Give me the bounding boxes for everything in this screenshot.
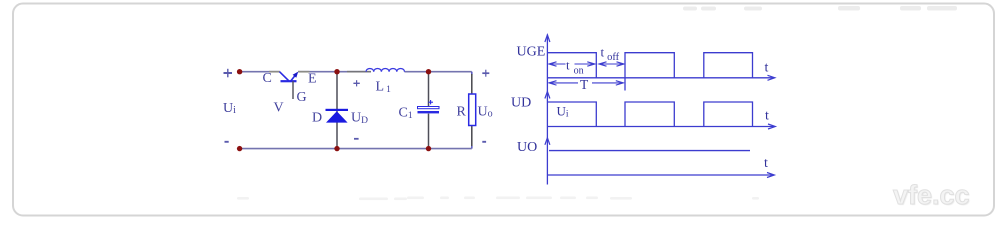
UO time axis xyxy=(547,174,773,176)
node dot input bottom xyxy=(237,146,242,151)
inductor L1 winding xyxy=(366,68,405,71)
wire gray stub right of transistor xyxy=(298,71,310,73)
transistor V (GTR) collector diagonal xyxy=(280,72,289,81)
UO time axis arrowhead xyxy=(767,173,774,178)
UGE time axis xyxy=(547,77,774,79)
svg-text:t: t xyxy=(764,156,768,171)
svg-text:T: T xyxy=(580,77,589,92)
minus mark output - xyxy=(482,141,486,143)
T dimension left segment with arrowhead xyxy=(549,81,578,85)
UGE time axis arrowhead xyxy=(768,75,775,80)
resistor R body xyxy=(469,94,476,126)
node dot diode bottom xyxy=(334,146,339,151)
minus mark diode - xyxy=(354,138,359,140)
svg-text:C: C xyxy=(263,71,272,86)
faint ghost marks bottom band xyxy=(237,197,759,201)
transistor V base bar xyxy=(281,80,297,82)
svg-text:t: t xyxy=(765,109,769,124)
transistor V emitter line xyxy=(291,73,297,81)
plus mark diode + xyxy=(353,80,359,86)
t_off dimension arrow (double headed) xyxy=(599,62,624,66)
node dot input top xyxy=(237,69,242,74)
diode D cathode bar xyxy=(326,109,349,111)
wire gray segment before inductor xyxy=(347,71,371,73)
svg-text:UD: UD xyxy=(511,96,531,111)
wire diode branch vertical xyxy=(336,72,338,149)
T dimension right segment with arrowhead xyxy=(592,81,623,85)
UO output level line xyxy=(549,150,750,152)
UD time axis arrowhead xyxy=(768,124,775,129)
axis arrowhead UO (up) xyxy=(545,138,550,145)
transistor V emitter arrowhead xyxy=(293,72,299,78)
svg-text:G: G xyxy=(297,90,307,105)
wire capacitor branch top lead xyxy=(428,72,430,107)
wire capacitor branch bottom lead xyxy=(428,114,430,149)
node dot capacitor top xyxy=(426,69,431,74)
wire top rail inductor to R branch corner xyxy=(405,71,472,73)
axis arrowhead UD (up) xyxy=(545,92,550,99)
wire R branch bottom lead (dark) xyxy=(471,125,473,146)
UGE pulse 2 (rising edge extended for T) xyxy=(625,53,674,91)
wire R branch top lead (dark) xyxy=(471,74,473,94)
svg-text:V: V xyxy=(274,101,284,116)
wire gray stub left of transistor xyxy=(269,71,280,73)
UGE pulse 3 xyxy=(704,53,753,78)
diode D triangle xyxy=(326,111,348,122)
svg-text:UO: UO xyxy=(517,140,537,155)
wire top rail E-node to inductor xyxy=(337,71,365,73)
wire top rail left (input + to transistor C) xyxy=(240,71,280,73)
UD pulse 1 xyxy=(547,102,596,127)
capacitor C1 top plate (hollow) xyxy=(418,107,440,109)
svg-text:UGE: UGE xyxy=(517,45,546,60)
faint ghost marks top band xyxy=(683,6,957,11)
svg-text:R: R xyxy=(457,105,467,120)
UD time axis xyxy=(547,126,774,128)
capacitor C1 polarity tick xyxy=(428,100,433,104)
capacitor C1 bottom plate (solid) xyxy=(418,111,440,113)
wire R branch elbow top xyxy=(471,72,473,75)
axis arrowhead UGE (up) xyxy=(545,35,550,42)
wire top rail C-E gray segment xyxy=(298,71,337,73)
UD pulse 3 xyxy=(704,102,753,127)
waveform vertical axis xyxy=(546,35,548,185)
svg-text:E: E xyxy=(308,72,317,87)
UGE pulse 1 xyxy=(547,53,596,78)
watermark vfe.cc xyxy=(893,180,970,211)
t_on dimension left segment with arrowhead xyxy=(549,62,566,66)
minus mark input - xyxy=(225,141,229,143)
plus mark output + xyxy=(482,70,489,77)
svg-text:D: D xyxy=(312,111,322,126)
t_on dimension right segment with arrowhead xyxy=(575,62,595,66)
node dot capacitor bottom xyxy=(426,146,431,151)
svg-text:t: t xyxy=(765,61,769,76)
transistor V gate lead wire xyxy=(292,81,294,99)
wire R branch elbow bottom xyxy=(471,146,473,149)
plus mark input + xyxy=(224,69,233,78)
node dot diode top xyxy=(334,69,339,74)
UD pulse 2 xyxy=(625,102,674,127)
wire bottom rail xyxy=(240,148,472,150)
